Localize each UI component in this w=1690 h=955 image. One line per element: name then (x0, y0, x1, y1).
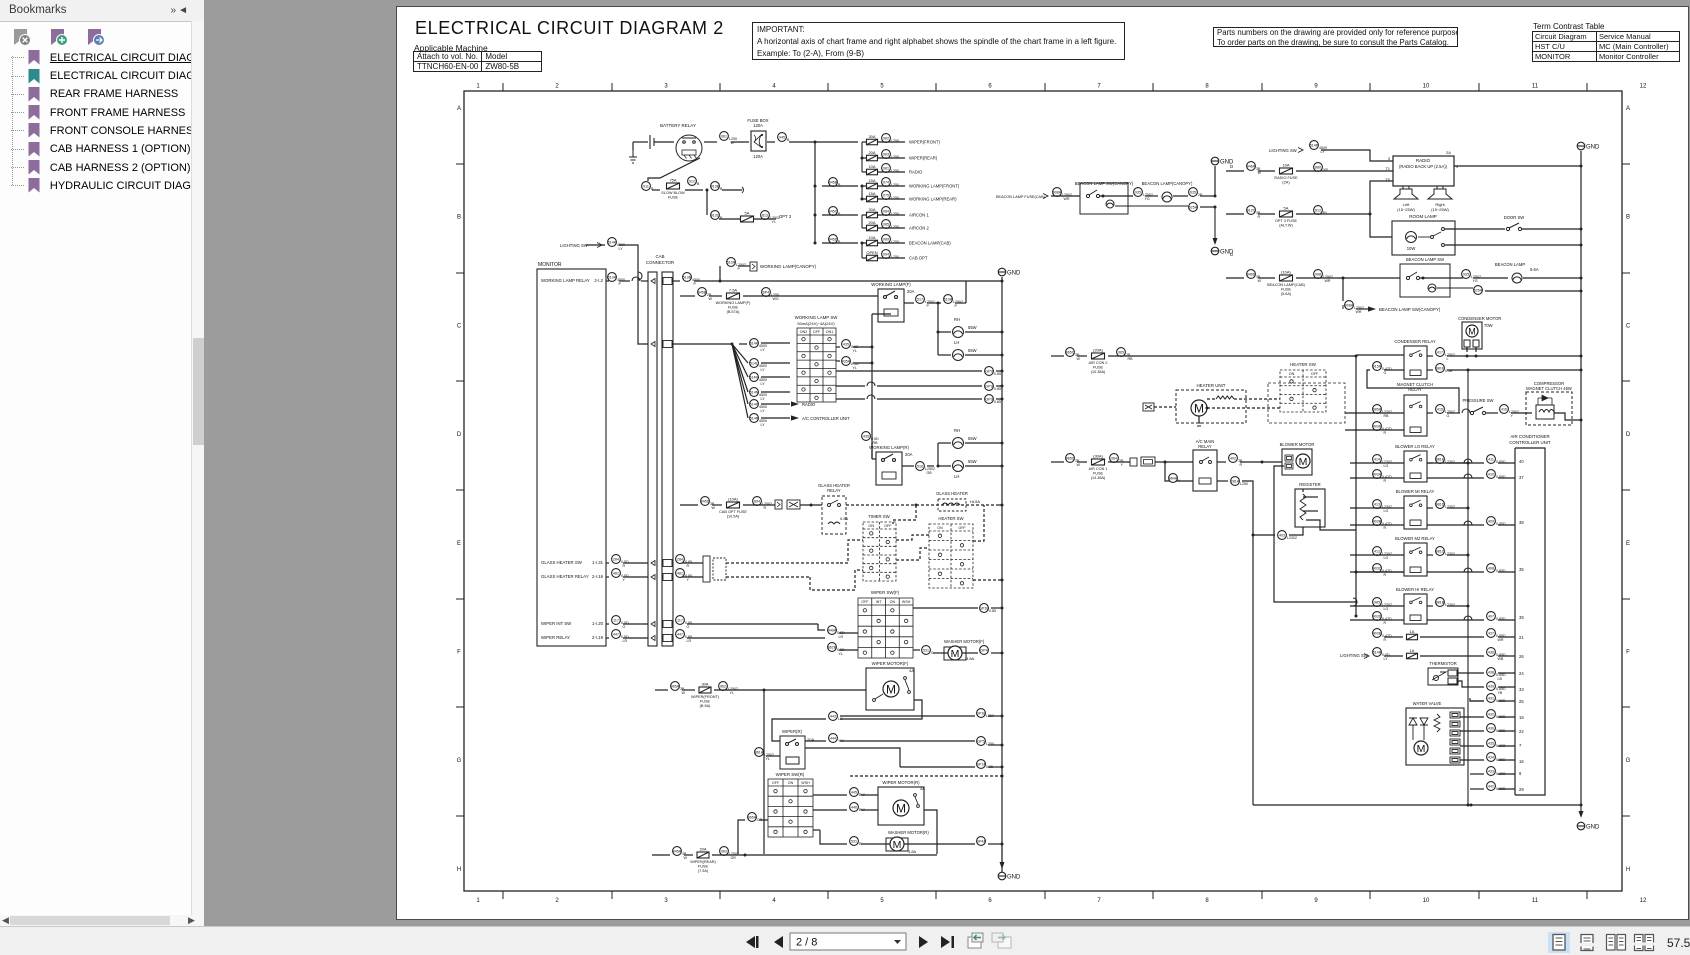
dashed to timer2 (810, 570, 863, 590)
svg-text:(RADIO BACK UP (2.5A)): (RADIO BACK UP (2.5A)) (1399, 164, 1448, 169)
connector 403E (1373, 629, 1392, 642)
wire 442 (1470, 788, 1484, 790)
relay out (1427, 412, 1433, 414)
svg-text:LG: LG (838, 717, 843, 721)
connector 965C (1066, 454, 1081, 467)
junction (1467, 369, 1470, 372)
svg-text:GLASS HEATER SW: GLASS HEATER SW (541, 560, 583, 565)
junction (937, 331, 940, 334)
wire to magnet relay coil (1345, 429, 1404, 431)
svg-text:O: O (687, 625, 690, 629)
svg-text:075: 075 (883, 194, 889, 198)
bottom row long (738, 854, 937, 856)
svg-text:P: P (955, 304, 958, 308)
fuse 20A WIPER(REAR) (867, 150, 878, 161)
svg-text:(B.57A): (B.57A) (727, 310, 741, 314)
wire to BLOWER HI RELAY coil (1350, 619, 1404, 621)
wire to LH lamp (938, 354, 951, 356)
connector 445 (850, 788, 866, 797)
svg-text:444: 444 (830, 737, 836, 741)
connector 981B (1436, 598, 1455, 607)
svg-text:W: W (1077, 463, 1081, 467)
fan out (761, 417, 790, 419)
junction (861, 242, 864, 245)
connector 438 (1487, 668, 1506, 681)
connector 513B (683, 273, 700, 286)
svg-text:435: 435 (863, 435, 869, 439)
svg-text:10: 10 (1423, 84, 1430, 90)
svg-text:AIRCON 2: AIRCON 2 (909, 226, 929, 231)
to trunk (988, 715, 1002, 717)
svg-text:YL: YL (772, 220, 776, 224)
connector 083 (882, 150, 899, 159)
svg-text:THERMISTOR: THERMISTOR (1429, 661, 1457, 666)
junction (1580, 355, 1583, 358)
junction (1001, 442, 1004, 445)
svg-text:4A: 4A (909, 668, 914, 673)
svg-text:R: R (687, 564, 690, 568)
svg-text:18: 18 (1519, 715, 1524, 720)
svg-text:635: 635 (1190, 191, 1196, 195)
connector 403D (1373, 612, 1392, 625)
svg-text:442: 442 (1488, 785, 1494, 789)
fan wire to 514N (732, 344, 748, 392)
svg-text:P: P (738, 267, 741, 271)
wire to 440A (818, 624, 825, 630)
svg-text:M: M (896, 801, 906, 815)
svg-text:945B: 945B (829, 181, 838, 185)
svg-text:M: M (1299, 456, 1308, 468)
svg-text:F: F (1626, 650, 1630, 656)
connector 946A (1247, 162, 1262, 175)
fan wire to 514L (732, 344, 748, 363)
room lamp box (1392, 221, 1455, 255)
svg-text:FUSE: FUSE (728, 306, 739, 310)
svg-text:10A: 10A (1282, 163, 1289, 168)
arrow to beacon canopy (1368, 306, 1376, 311)
fan out (761, 391, 790, 393)
svg-text:965C: 965C (1066, 457, 1075, 461)
svg-text:20A: 20A (868, 150, 875, 155)
connector 514K (750, 339, 767, 352)
wiper motor F contacts (873, 677, 911, 702)
connector 517 (916, 295, 935, 308)
svg-text:11: 11 (1532, 84, 1539, 90)
svg-text:BEACON LAMP(CANOPY): BEACON LAMP(CANOPY) (1142, 181, 1193, 186)
ground GND radio (1577, 142, 1600, 150)
svg-text:BLOWER M2 RELAY: BLOWER M2 RELAY (1395, 536, 1435, 541)
svg-text:531: 531 (851, 840, 857, 844)
relay coil out (1217, 480, 1228, 482)
svg-text:510A: 510A (944, 298, 953, 302)
svg-text:(10A): (10A) (728, 497, 738, 502)
bottom row in (652, 854, 670, 856)
svg-text:LY: LY (761, 409, 766, 413)
arrow lighting sw left (597, 243, 602, 248)
connector 281A (1231, 477, 1248, 486)
svg-text:W: W (682, 691, 686, 695)
wire row386 (836, 385, 865, 387)
svg-text:LR: LR (687, 639, 692, 643)
wire to fuse WORKING LAMP(FRONT) (862, 185, 866, 187)
wiper relay R output wire (805, 748, 900, 767)
wire to glass heater relay (800, 504, 822, 506)
row716 right b (900, 715, 975, 717)
wire to ac unit 26 (1498, 655, 1515, 657)
blower lo relay (1404, 451, 1427, 482)
wire room lamp low to trunk (1445, 244, 1581, 246)
svg-text:447: 447 (677, 633, 683, 637)
svg-text:117: 117 (613, 619, 619, 623)
connector 437 (1487, 629, 1506, 642)
gnd trunk right (1580, 166, 1582, 352)
connector 6P4 (762, 288, 779, 301)
svg-text:432: 432 (1488, 713, 1494, 717)
connector GP5 (977, 737, 994, 746)
svg-text:434: 434 (1488, 756, 1494, 760)
register tap to trunk (1320, 524, 1356, 530)
junction (763, 689, 766, 692)
svg-text:C: C (1626, 323, 1631, 329)
junction (1001, 579, 1004, 582)
svg-text:935: 935 (1135, 191, 1141, 195)
beacon lamp (canopy) (1162, 192, 1172, 202)
wire to fuse AIRCON 2 (862, 227, 866, 229)
condenser motor pins (1464, 340, 1479, 347)
wire pin 8 (1498, 773, 1515, 775)
wire to conn (1427, 571, 1484, 573)
svg-text:ON: ON (788, 781, 794, 785)
connector pin row 624 (663, 621, 672, 628)
connector 880 (1314, 163, 1329, 172)
svg-text:W: W (712, 506, 716, 510)
svg-text:1A: 1A (1410, 629, 1415, 634)
junction (871, 362, 874, 365)
862B to table (839, 649, 858, 651)
junction (719, 280, 722, 283)
wire blower to vertical x1274 (1274, 466, 1356, 602)
wire to fuse CAB OPT (862, 257, 866, 259)
hop over trunk (1464, 568, 1472, 572)
wire fusebox out (767, 141, 775, 143)
445 to motor (861, 794, 878, 796)
wire to trunk (789, 141, 815, 143)
svg-text:514L: 514L (750, 362, 758, 366)
junction (1001, 652, 1004, 655)
svg-text:7: 7 (1097, 84, 1101, 90)
wire opt3 in (1226, 213, 1244, 215)
wire 911 to fuse (652, 189, 660, 191)
blower motor connector pins (1285, 455, 1293, 469)
svg-text:LR: LR (839, 635, 844, 639)
wiper motor F out loop (840, 700, 922, 719)
junction (861, 185, 864, 188)
svg-text:F: F (457, 650, 461, 656)
svg-text:30A: 30A (701, 682, 708, 687)
svg-text:WR: WR (1498, 638, 1504, 642)
svg-text:281A: 281A (1231, 480, 1240, 484)
svg-text:5A: 5A (1284, 206, 1289, 211)
svg-text:861A: 861A (755, 751, 764, 755)
svg-text:1: 1 (476, 898, 480, 904)
wire fuse BEACON LAMP(CAB) out (878, 242, 905, 244)
svg-text:GP4: GP4 (980, 649, 987, 653)
svg-text:1-I.31: 1-I.31 (592, 560, 604, 565)
connector GP9 (985, 367, 1001, 376)
dashed wire down to timer (893, 505, 916, 524)
wire fuse out (714, 689, 764, 691)
wire to wiper motor F (764, 689, 866, 691)
junction (1467, 462, 1470, 465)
wire 913B right (722, 189, 742, 191)
svg-text:G: G (1447, 414, 1450, 418)
svg-text:FUSE: FUSE (1093, 472, 1104, 476)
svg-text:HL5A: HL5A (970, 499, 980, 504)
wire fuse AIRCON 2 out (878, 227, 905, 229)
svg-text:945A: 945A (673, 850, 682, 854)
svg-text:LY: LY (761, 382, 766, 386)
connector 813 (761, 211, 780, 224)
branch up canopy (719, 266, 721, 281)
svg-text:57.5: 57.5 (1667, 936, 1690, 950)
conn out (672, 280, 680, 282)
connector 913B (711, 182, 723, 191)
junction (1466, 355, 1469, 358)
svg-text:C: C (457, 323, 462, 329)
wiper motor R box (878, 787, 924, 825)
svg-text:945D: 945D (829, 238, 838, 242)
svg-text:(10.38A): (10.38A) (1091, 370, 1106, 374)
connector 862B (828, 643, 845, 656)
arrow fan 514P (791, 401, 799, 406)
connector 908A (1053, 188, 1072, 201)
svg-text:50mA(24V)~4A(24V): 50mA(24V)~4A(24V) (797, 321, 835, 326)
wire to beacon fuse (1258, 277, 1275, 279)
wire to compressor (1511, 412, 1532, 414)
junction (731, 343, 734, 346)
wire to BLOWER M2 RELAY (1350, 554, 1404, 556)
wire beacon fuse out (1296, 277, 1343, 279)
wire row399 (836, 398, 865, 400)
svg-text:094: 094 (883, 253, 889, 257)
svg-text:GP9: GP9 (985, 385, 992, 389)
svg-text:38: 38 (1519, 520, 1524, 525)
junction (1470, 804, 1473, 807)
svg-text:412: 412 (1374, 550, 1380, 554)
fuse 20A AIRCON 2 (867, 220, 878, 231)
junction (810, 504, 813, 507)
working lamp R LH 55W (953, 461, 964, 472)
ground GND bottom right (1577, 822, 1600, 830)
connector 981E (1436, 455, 1455, 464)
svg-text:481: 481 (677, 572, 683, 576)
fuse OPT3 5A (741, 211, 754, 223)
connector 625A (1474, 286, 1483, 295)
dashed row563 (726, 562, 840, 564)
vertical trunk x1468 (1467, 370, 1469, 805)
svg-text:15A: 15A (868, 191, 875, 196)
svg-text:LY: LY (761, 368, 766, 372)
wire to BLOWER LO RELAY coil (1350, 477, 1404, 479)
svg-text:BLOWER LO RELAY: BLOWER LO RELAY (1395, 444, 1435, 449)
svg-text:BLOWER MI RELAY: BLOWER MI RELAY (1396, 489, 1435, 494)
svg-text:BEACON LAMP SW(CANOPY): BEACON LAMP SW(CANOPY) (1379, 307, 1441, 312)
wire 965A down (738, 820, 745, 854)
glass heater relay dashed box (822, 496, 846, 534)
connector 444 (829, 734, 845, 743)
junction (1422, 277, 1425, 280)
svg-text:439: 439 (1488, 685, 1494, 689)
svg-text:411: 411 (1488, 458, 1494, 462)
svg-text:6: 6 (988, 898, 992, 904)
svg-text:880: 880 (1315, 166, 1321, 170)
svg-text:514P: 514P (750, 403, 759, 407)
svg-text:4: 4 (772, 898, 776, 904)
junction (1580, 290, 1583, 293)
junction (1001, 370, 1004, 373)
connector 440A (828, 626, 845, 639)
to relay R (872, 458, 876, 460)
connector 981C (1436, 547, 1455, 556)
wire to conn (1427, 462, 1484, 464)
svg-text:GND: GND (1007, 271, 1021, 277)
wire lighting to radio pin3 (1321, 150, 1393, 161)
fuse aircon1 (1089, 454, 1108, 481)
connector 965A (748, 813, 763, 822)
connector 514N (750, 388, 767, 401)
connector 510A (944, 295, 963, 308)
svg-text:(ALT.W): (ALT.W) (1279, 224, 1293, 228)
radio unit (1393, 156, 1454, 186)
relay F out (904, 302, 914, 304)
connector 413 (1373, 500, 1392, 513)
svg-text:WORKING LAMP(F): WORKING LAMP(F) (871, 282, 911, 287)
junction (1001, 843, 1004, 846)
svg-text:M: M (893, 839, 902, 851)
connector GP4A (976, 837, 986, 846)
junction (1580, 244, 1583, 247)
svg-text:4: 4 (772, 84, 776, 90)
thermistor (1428, 668, 1458, 685)
svg-text:437: 437 (1488, 632, 1494, 636)
svg-text:FUSE: FUSE (1281, 288, 1292, 292)
connector 403F (1373, 422, 1392, 435)
svg-text:LB: LB (1498, 677, 1503, 681)
svg-text:5.6A: 5.6A (1530, 267, 1539, 272)
svg-text:120A: 120A (753, 123, 763, 128)
svg-text:WORKING LAMP(FRONT): WORKING LAMP(FRONT) (909, 184, 960, 189)
connector 074 (882, 178, 899, 187)
wire wiper fuse in (655, 689, 668, 691)
wiper motor F M (883, 681, 899, 697)
svg-text:WR: WR (1064, 197, 1070, 201)
junction (1001, 744, 1004, 747)
svg-text:417: 417 (1437, 351, 1443, 355)
relay R out (902, 465, 914, 467)
fuse working lamp F (716, 288, 752, 315)
svg-text:E: E (1626, 541, 1630, 547)
wire to 444 (772, 719, 826, 741)
row767 (900, 766, 975, 768)
x872 to relay coil (872, 313, 891, 315)
wire pin 16 (1498, 759, 1515, 761)
heater pigtail connector (1143, 403, 1154, 411)
junction (1001, 766, 1004, 769)
wire to BLOWER MI RELAY (1350, 507, 1404, 509)
to trunk (991, 607, 1002, 609)
dashed row776 (850, 775, 1002, 777)
fuse wiper rear (690, 847, 716, 874)
wire fuse to relay (743, 295, 878, 297)
beacon lamp (cab) (1512, 273, 1522, 283)
svg-text:625A: 625A (1189, 206, 1198, 210)
arrow in (1043, 194, 1048, 199)
wire clutch to trunk (1554, 413, 1581, 420)
register box (1295, 489, 1325, 527)
cab connector (648, 272, 673, 646)
svg-text:Y: Y (1511, 414, 1514, 418)
svg-text:911: 911 (643, 185, 649, 189)
svg-text:514P: 514P (1310, 144, 1319, 148)
svg-text:403D: 403D (1373, 615, 1382, 619)
wiper motor R M (893, 800, 909, 816)
junction (1580, 804, 1583, 807)
svg-text:WIPER INT SW: WIPER INT SW (541, 621, 572, 626)
svg-text:D: D (1230, 252, 1234, 257)
svg-text:438: 438 (1488, 671, 1494, 675)
wire down to opt3 (706, 190, 708, 215)
svg-text:409: 409 (1488, 520, 1494, 524)
wire to radio T0 (1370, 181, 1393, 214)
connector 407 (1487, 612, 1506, 621)
svg-text:403B: 403B (1373, 520, 1382, 524)
svg-text:WASHER MOTOR(F): WASHER MOTOR(F) (944, 639, 985, 644)
register tap3 (1303, 510, 1318, 512)
working lamp F LH 55W (953, 350, 964, 361)
svg-text:OFF: OFF (772, 781, 780, 785)
fan wire to 514R (732, 344, 748, 418)
connector 913C (711, 211, 723, 220)
relay out to trunk (1447, 507, 1468, 509)
connector 963 (720, 847, 739, 860)
blower motor M (1296, 454, 1310, 468)
svg-text:2A: 2A (1446, 150, 1451, 155)
trunk vertical (814, 142, 816, 243)
wire row577 (680, 576, 703, 578)
svg-text:RADIO: RADIO (909, 170, 923, 175)
wire relay to slow blow (648, 158, 700, 181)
svg-text:BLOWER MOTOR: BLOWER MOTOR (1280, 442, 1315, 447)
wire top water valve (1470, 698, 1484, 701)
svg-text:55W: 55W (968, 348, 977, 353)
svg-text:WIPER MOTOR(R): WIPER MOTOR(R) (882, 780, 920, 785)
connector 402 (1229, 454, 1243, 467)
register to 403 (1289, 527, 1303, 535)
wire to BLOWER HI RELAY (1350, 605, 1404, 607)
svg-text:403: 403 (1279, 534, 1285, 538)
svg-text:514K: 514K (608, 241, 617, 245)
svg-text:W: W (709, 297, 713, 301)
junction (937, 302, 940, 305)
wire to opt3 fuse (719, 218, 740, 220)
conn row344 out (672, 343, 732, 345)
register tap (1306, 520, 1320, 524)
heater gnd mark (1196, 423, 1202, 426)
wire hop (867, 382, 875, 386)
beacon sw lamp (1428, 284, 1436, 292)
junction (1580, 165, 1583, 168)
svg-text:R: R (764, 506, 767, 510)
